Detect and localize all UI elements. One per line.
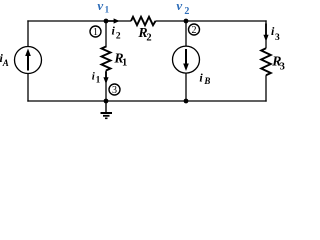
svg-text:i: i xyxy=(112,24,116,38)
svg-text:2: 2 xyxy=(116,31,121,41)
ground xyxy=(101,101,113,118)
wire right upper xyxy=(265,20,267,48)
svg-text:A: A xyxy=(2,58,9,68)
svg-text:B: B xyxy=(203,76,210,86)
wire bottom xyxy=(27,100,266,102)
svg-text:1: 1 xyxy=(93,27,98,38)
svg-text:2: 2 xyxy=(192,25,197,36)
node v2 label xyxy=(176,0,189,17)
node v1 dot xyxy=(104,19,109,24)
svg-text:2: 2 xyxy=(184,6,189,17)
svg-text:3: 3 xyxy=(280,62,285,73)
value label R3 xyxy=(271,54,285,73)
iA arrow xyxy=(25,49,31,71)
junction dot bottom left xyxy=(104,99,109,104)
node v2 dot xyxy=(184,19,189,24)
current label i1 xyxy=(92,71,101,85)
current label i2 xyxy=(112,24,121,42)
current arrow i2 xyxy=(107,18,120,23)
node 1 circled xyxy=(90,26,101,38)
wire top-left segment xyxy=(27,20,131,22)
svg-text:v: v xyxy=(97,0,103,13)
wire left upper xyxy=(27,20,29,46)
wire branch v1 upper xyxy=(105,21,107,48)
wire branch v2 lower xyxy=(185,73,187,101)
junction dot bottom right xyxy=(184,99,189,104)
node v1 label xyxy=(97,0,109,15)
svg-text:3: 3 xyxy=(275,33,280,43)
resistor R1 xyxy=(102,47,111,71)
svg-text:v: v xyxy=(176,0,182,13)
current source iA xyxy=(15,47,42,74)
value label R2 xyxy=(137,25,151,44)
resistor R3 xyxy=(261,48,271,75)
wire right lower xyxy=(265,75,267,101)
node 2 circled xyxy=(189,24,200,36)
current label i3 xyxy=(271,24,280,43)
wire branch v1 lower xyxy=(105,71,107,102)
iB arrow xyxy=(183,49,189,71)
current arrow i1 xyxy=(103,72,108,85)
svg-text:1: 1 xyxy=(122,58,127,69)
svg-text:3: 3 xyxy=(112,85,117,96)
value label R1 xyxy=(113,51,127,69)
wire branch v2 upper xyxy=(185,21,187,46)
current arrow i3 xyxy=(263,24,268,42)
resistor R2 xyxy=(131,17,156,25)
svg-text:i: i xyxy=(199,70,203,84)
value label iA xyxy=(0,51,9,68)
value label iB xyxy=(199,70,210,86)
node 3 circled xyxy=(109,84,120,96)
current source iB xyxy=(173,46,200,73)
svg-text:1: 1 xyxy=(105,5,110,15)
wire top-right segment xyxy=(156,20,267,22)
svg-text:2: 2 xyxy=(146,33,151,44)
svg-text:1: 1 xyxy=(96,75,101,85)
wire left lower xyxy=(27,74,29,102)
